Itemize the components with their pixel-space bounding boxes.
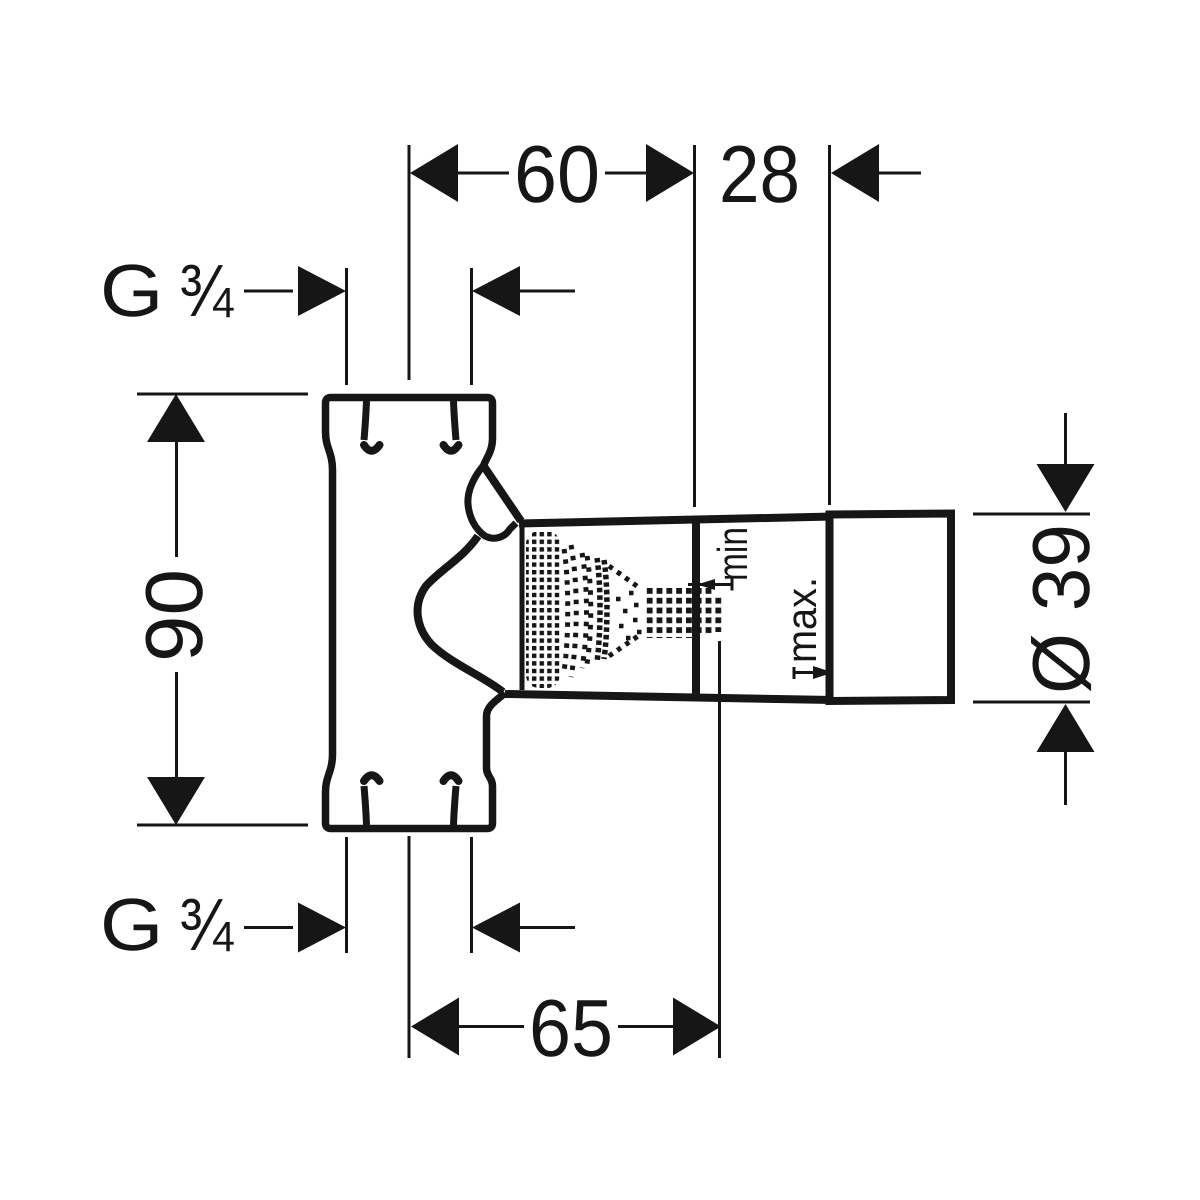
sleeve rectangle [830, 514, 952, 702]
stipple: dense bar 2 [604, 560, 607, 659]
wire: thread extension line right top [470, 268, 473, 385]
stipple: funnel top [609, 566, 641, 589]
wire: dim 90 line lower [175, 672, 178, 779]
svg-text:¾: ¾ [179, 883, 234, 966]
thread hook top-left stem [364, 401, 367, 440]
wire: 65 extension line left (pipe axis, bottom) [408, 836, 411, 1058]
dim 90: top extension line [137, 393, 308, 396]
dim O39 up arrow [1037, 704, 1095, 752]
max leader tick [793, 667, 796, 679]
svg-text:90: 90 [130, 569, 220, 662]
thread hook bottom-right stem [454, 786, 457, 825]
wire: G3/4 top leader dash [244, 290, 293, 293]
wire: 65 extension line right [718, 641, 721, 1058]
funnel diagonal to tube corner [483, 465, 521, 521]
label G 3/4 bottom: G [100, 883, 163, 966]
svg-text:¾: ¾ [179, 249, 234, 332]
wire: max leader tail [794, 671, 815, 674]
svg-text:min: min [709, 527, 756, 581]
svg-text:60: 60 [514, 130, 600, 220]
stipple: funnel bottom [609, 634, 641, 656]
dim O39 down arrow [1037, 464, 1095, 512]
wire: extension line x829 (max plane) [828, 145, 831, 505]
wire: G3/4 bottom leader dash [244, 926, 293, 929]
dim O39: top tick [973, 513, 1090, 516]
tube partition 1 (min plane) [692, 520, 700, 696]
G3/4 top arrow into right thread line [472, 266, 520, 316]
dim O39: bottom tick [973, 701, 1090, 704]
wire: dim 65 line right [618, 1025, 675, 1028]
wire: dim 60 line left [456, 172, 509, 175]
wire: G3/4 top arrow tail [518, 290, 575, 293]
dim 90: bottom extension line [137, 824, 308, 827]
thread hook top-left arc [364, 445, 380, 451]
stipple: dense bar 1 [597, 558, 600, 662]
G3/4 bottom arrow into right thread line [472, 903, 520, 953]
svg-text:Ø 39: Ø 39 [1017, 524, 1107, 694]
wire: thread extension line right bottom [470, 837, 473, 953]
stipple: block bulge column [564, 549, 568, 671]
label G 3/4 top: fraction [179, 249, 234, 332]
wire: min leader tick [731, 579, 734, 591]
svg-text:65: 65 [529, 984, 613, 1074]
wire: extension line x694 (min plane) [693, 145, 696, 507]
stipple: dense block [526, 531, 560, 688]
thread hook top-right stem [454, 401, 457, 440]
stipple: arc 3 [587, 556, 591, 664]
wire: G3/4 bottom arrow tail [518, 926, 575, 929]
thread hook bottom-right arc [444, 775, 459, 781]
wire: thread extension line left top [345, 268, 348, 385]
max leader arrow [813, 666, 833, 679]
stipple: funnel throat dots [616, 593, 642, 638]
wire: dim 60 line right [605, 172, 648, 175]
dim 65: right arrow [673, 998, 721, 1056]
stipple: arc 1 [571, 545, 576, 677]
wire: thread extension line left bottom [345, 837, 348, 953]
tube top edge [519, 517, 833, 524]
dim 60: left arrow [410, 144, 458, 202]
stipple: spindle tip cluster [700, 588, 713, 637]
svg-text:max.: max. [778, 577, 825, 663]
wire: O39 line top [1064, 413, 1067, 467]
svg-text:G: G [100, 249, 163, 332]
wire: dim 90 line upper [175, 440, 178, 557]
label G 3/4 top: G [100, 249, 163, 332]
svg-text:28: 28 [719, 130, 800, 220]
G3/4 bottom arrow into left thread line [298, 903, 346, 953]
min leader arrow [697, 579, 715, 590]
dim 90: up arrow [147, 394, 205, 442]
wire: extension line x409 (pipe axis, top) [408, 145, 411, 380]
label G 3/4 bottom: fraction [179, 883, 234, 966]
dim 65: left arrow [411, 998, 459, 1056]
dim 90: down arrow [147, 777, 205, 825]
G3/4 top arrow into left thread line [298, 266, 346, 316]
stipple: spindle body [645, 585, 693, 638]
tube bottom edge [505, 694, 833, 700]
thread hook bottom-left stem [364, 786, 367, 825]
wire: O39 line bottom [1064, 750, 1067, 805]
wire: min leader tail [688, 583, 732, 586]
wire: dim 28 tail [877, 172, 921, 175]
dim 28: outside arrow right [831, 144, 879, 202]
thread hook top-right arc [444, 445, 459, 451]
body bulge right side [418, 536, 503, 692]
svg-text:G: G [100, 883, 163, 966]
tube left wall [520, 527, 525, 690]
teardrop loop [468, 466, 516, 538]
wire: dim 65 line left [457, 1025, 524, 1028]
dim 60: right arrow [646, 144, 694, 202]
valve body outline [326, 398, 506, 829]
thread hook bottom-left arc [364, 775, 380, 781]
stipple: arc 2 [582, 553, 587, 668]
